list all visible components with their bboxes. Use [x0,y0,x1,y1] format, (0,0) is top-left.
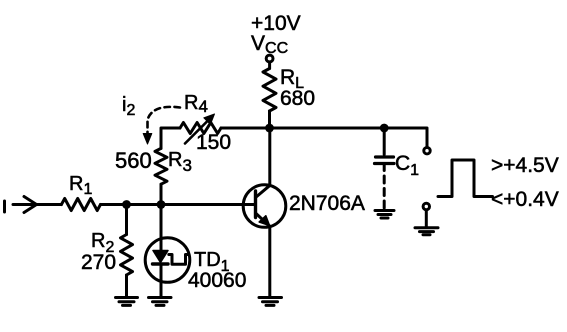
tunnel diode TD1 [145,238,190,283]
ground emitter [259,298,282,306]
wire TD1 cathode to ground [160,264,163,297]
wire collector [268,128,271,185]
wire base rail [101,203,256,206]
dashed current arrow i2 [148,107,181,135]
svg-text:560: 560 [115,148,152,173]
input arrowhead [24,197,37,213]
wire C1 top [383,128,386,155]
svg-text:150: 150 [196,131,231,154]
ground R2 [116,298,138,306]
junction R3/TD1 node [157,200,166,209]
terminal Vcc open circle [266,55,273,62]
output pulse waveform [438,160,493,197]
wire R3 bottom to base rail [160,184,163,205]
arrowhead of i2 [143,134,152,145]
junction C1 node [380,124,389,133]
wire R2 bottom to ground [125,275,128,297]
svg-text:2N706A: 2N706A [289,192,365,215]
svg-text:<+0.4V: <+0.4V [491,188,559,211]
wire Vcc terminal to RL [268,62,271,69]
resistor R1 [61,199,100,211]
resistor R2 [121,235,133,276]
wire TD1 anode [160,205,163,252]
junction R2 node [122,200,131,209]
terminal output ground open circle [423,203,429,209]
wire R4 right to collector node [221,127,270,130]
wire R2 top [125,205,128,235]
ground output terminal [415,228,438,235]
arrow through R4 [185,120,209,144]
label i input [3,201,6,212]
transistor Q1 2N706A [243,185,286,228]
ground TD1 [149,298,172,306]
capacitor C1 [375,157,395,164]
wire terminal to ground [425,210,428,227]
wire emitter to ground [268,226,271,296]
wire C1 bottom dashed to ground [383,164,386,209]
svg-text:40060: 40060 [188,269,246,292]
arrowhead of R4 arrow [204,114,215,124]
resistor R4 (variable) [180,123,221,134]
svg-text:270: 270 [81,251,116,274]
wire R3 top to R4 left (corner) [161,128,180,148]
ground C1 [375,211,394,219]
junction collector node [265,124,274,133]
svg-text:>+4.5V: >+4.5V [491,154,559,177]
input arrow wire [13,203,61,206]
svg-text:680: 680 [280,87,315,110]
wire RL bottom to collector node [268,111,271,128]
resistor RL [263,69,276,112]
resistor R3 [155,148,167,184]
terminal output open circle [424,148,430,154]
wire collector rail to output corner [270,128,428,147]
